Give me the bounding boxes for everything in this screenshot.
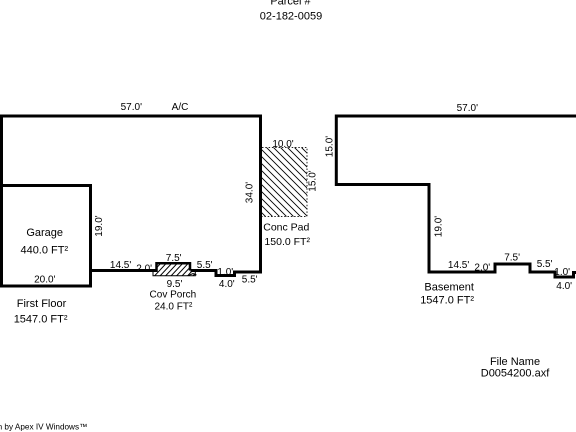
svg-text:1.0': 1.0' [554, 267, 570, 278]
svg-text:Drawn by Apex IV Windows™: Drawn by Apex IV Windows™ [0, 423, 87, 432]
svg-text:Garage: Garage [26, 227, 63, 239]
conc pad dotted border [262, 148, 307, 217]
svg-text:First Floor: First Floor [17, 298, 67, 310]
svg-text:10.0': 10.0' [272, 139, 293, 150]
first floor / garage left wall [0, 115, 3, 288]
svg-text:14.5': 14.5' [448, 260, 469, 271]
svg-text:9.5': 9.5' [167, 279, 183, 290]
svg-text:2.0': 2.0' [474, 263, 490, 274]
svg-text:1.0': 1.0' [217, 267, 233, 278]
svg-text:5.5': 5.5' [537, 259, 553, 270]
first floor bottom wall left segment [89, 269, 156, 272]
svg-text:A/C: A/C [172, 102, 189, 113]
cov porch lower strip thin border [153, 271, 195, 276]
svg-text:4.0': 4.0' [219, 279, 235, 290]
svg-text:15.0': 15.0' [307, 170, 318, 191]
first floor outline right part [0, 116, 261, 276]
cov porch hatch [148, 262, 206, 277]
svg-text:34.0': 34.0' [245, 182, 256, 203]
svg-text:57.0': 57.0' [121, 102, 142, 113]
svg-text:Conc Pad: Conc Pad [263, 222, 309, 234]
basement outline [336, 116, 576, 277]
svg-text:1547.0 FT²: 1547.0 FT² [14, 314, 68, 326]
svg-text:7.5': 7.5' [166, 253, 182, 264]
svg-text:D0054200.axf: D0054200.axf [481, 368, 550, 380]
svg-text:7.5': 7.5' [504, 252, 520, 263]
conc pad hatch [193, 144, 380, 219]
svg-text:19.0': 19.0' [434, 216, 445, 237]
svg-text:Cov Porch: Cov Porch [150, 290, 197, 301]
cov porch thick border (left, top, right) [157, 263, 191, 272]
svg-text:5.5': 5.5' [242, 275, 258, 286]
svg-text:150.0 FT²: 150.0 FT² [264, 236, 310, 248]
svg-text:4.0': 4.0' [556, 281, 572, 292]
svg-text:14.5': 14.5' [110, 260, 131, 271]
svg-text:19.0': 19.0' [94, 215, 105, 236]
svg-text:File Name: File Name [490, 356, 540, 368]
svg-text:Basement: Basement [424, 282, 474, 294]
svg-text:02-182-0059: 02-182-0059 [260, 11, 322, 23]
svg-text:440.0 FT²: 440.0 FT² [20, 245, 68, 257]
svg-text:5.5': 5.5' [197, 260, 213, 271]
svg-text:57.0': 57.0' [457, 103, 478, 114]
svg-text:15.0': 15.0' [325, 136, 336, 157]
svg-text:2.0': 2.0' [136, 264, 152, 275]
garage outline [0, 186, 91, 287]
svg-text:Parcel #: Parcel # [270, 0, 311, 8]
svg-text:1547.0 FT²: 1547.0 FT² [420, 295, 474, 307]
svg-text:20.0': 20.0' [34, 275, 55, 286]
svg-text:24.0 FT²: 24.0 FT² [155, 302, 193, 313]
porch corner squiggle [189, 274, 197, 276]
